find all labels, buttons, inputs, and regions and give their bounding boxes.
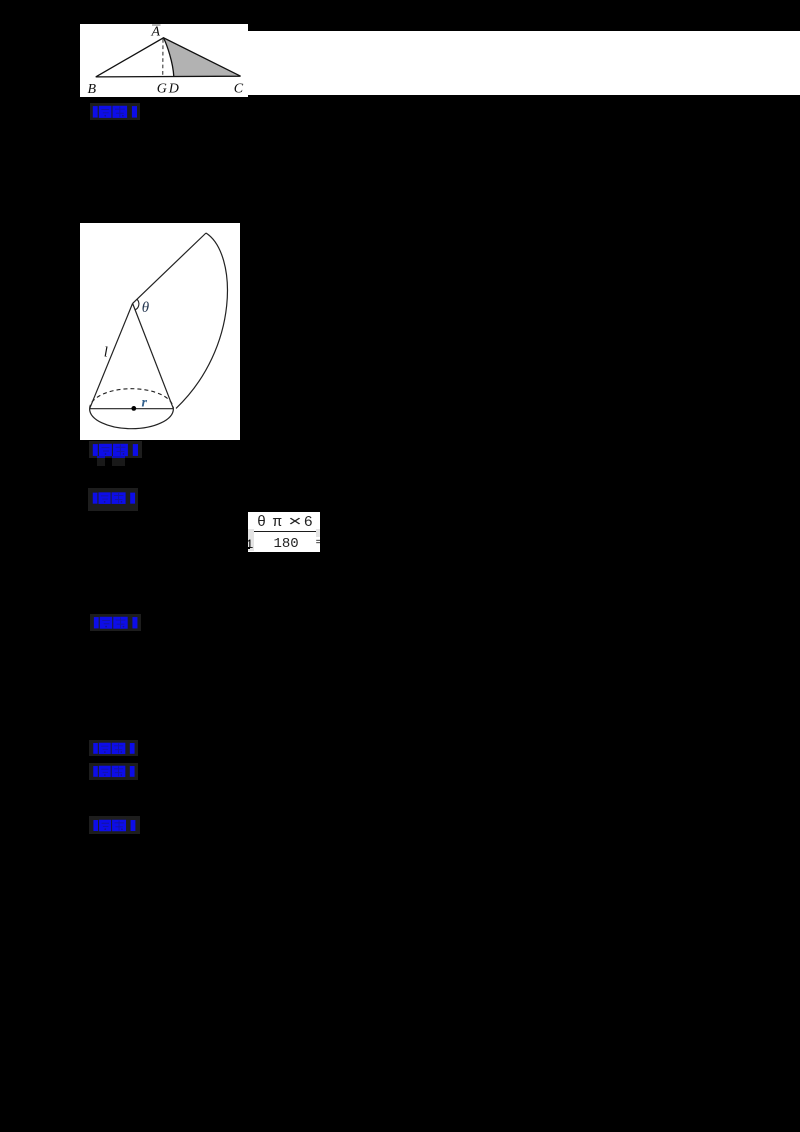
triangle sides xyxy=(96,38,241,77)
white band (highlighted text line, right of figure 1) xyxy=(248,31,800,95)
blue label L5 【答案】 xyxy=(89,740,138,756)
angle arc at apex xyxy=(135,299,139,310)
svg-text:θ: θ xyxy=(142,300,150,316)
blue label L7 【详解】 xyxy=(89,816,140,834)
figure box F1: triangle ABC with arc xyxy=(80,24,248,97)
svg-text:B: B xyxy=(88,82,97,97)
sector arc xyxy=(176,233,227,408)
cone right slant xyxy=(133,303,174,408)
center dot xyxy=(131,406,136,411)
gray tick above A xyxy=(152,24,161,26)
formula box: theta*pi*6 / 180 xyxy=(248,512,320,552)
svg-text:r: r xyxy=(142,396,148,411)
svg-text:D: D xyxy=(168,81,179,96)
cone left slant xyxy=(90,303,133,408)
blue label L3 【解析】 xyxy=(88,488,138,511)
svg-text:l: l xyxy=(104,345,108,361)
blue label L4 【点睛】 xyxy=(90,614,141,631)
shaded region A-D-C xyxy=(164,38,241,77)
blue label L2 【答案】 xyxy=(89,441,142,458)
ellipse base: lower solid xyxy=(90,409,174,429)
dashed altitude A-G xyxy=(162,39,164,77)
sector straight edge apex->top xyxy=(133,233,206,303)
ellipse base: upper dashed xyxy=(90,389,174,409)
figure box F2: cone with unrolled sector xyxy=(80,223,240,440)
svg-text:C: C xyxy=(234,81,244,96)
svg-text:G: G xyxy=(157,81,167,96)
diameter line xyxy=(90,408,174,410)
blue label L6 【解析】 xyxy=(89,763,138,780)
arc A to D xyxy=(164,38,174,77)
svg-text:A: A xyxy=(151,25,161,40)
blue label L1 【答案】 xyxy=(90,103,140,120)
